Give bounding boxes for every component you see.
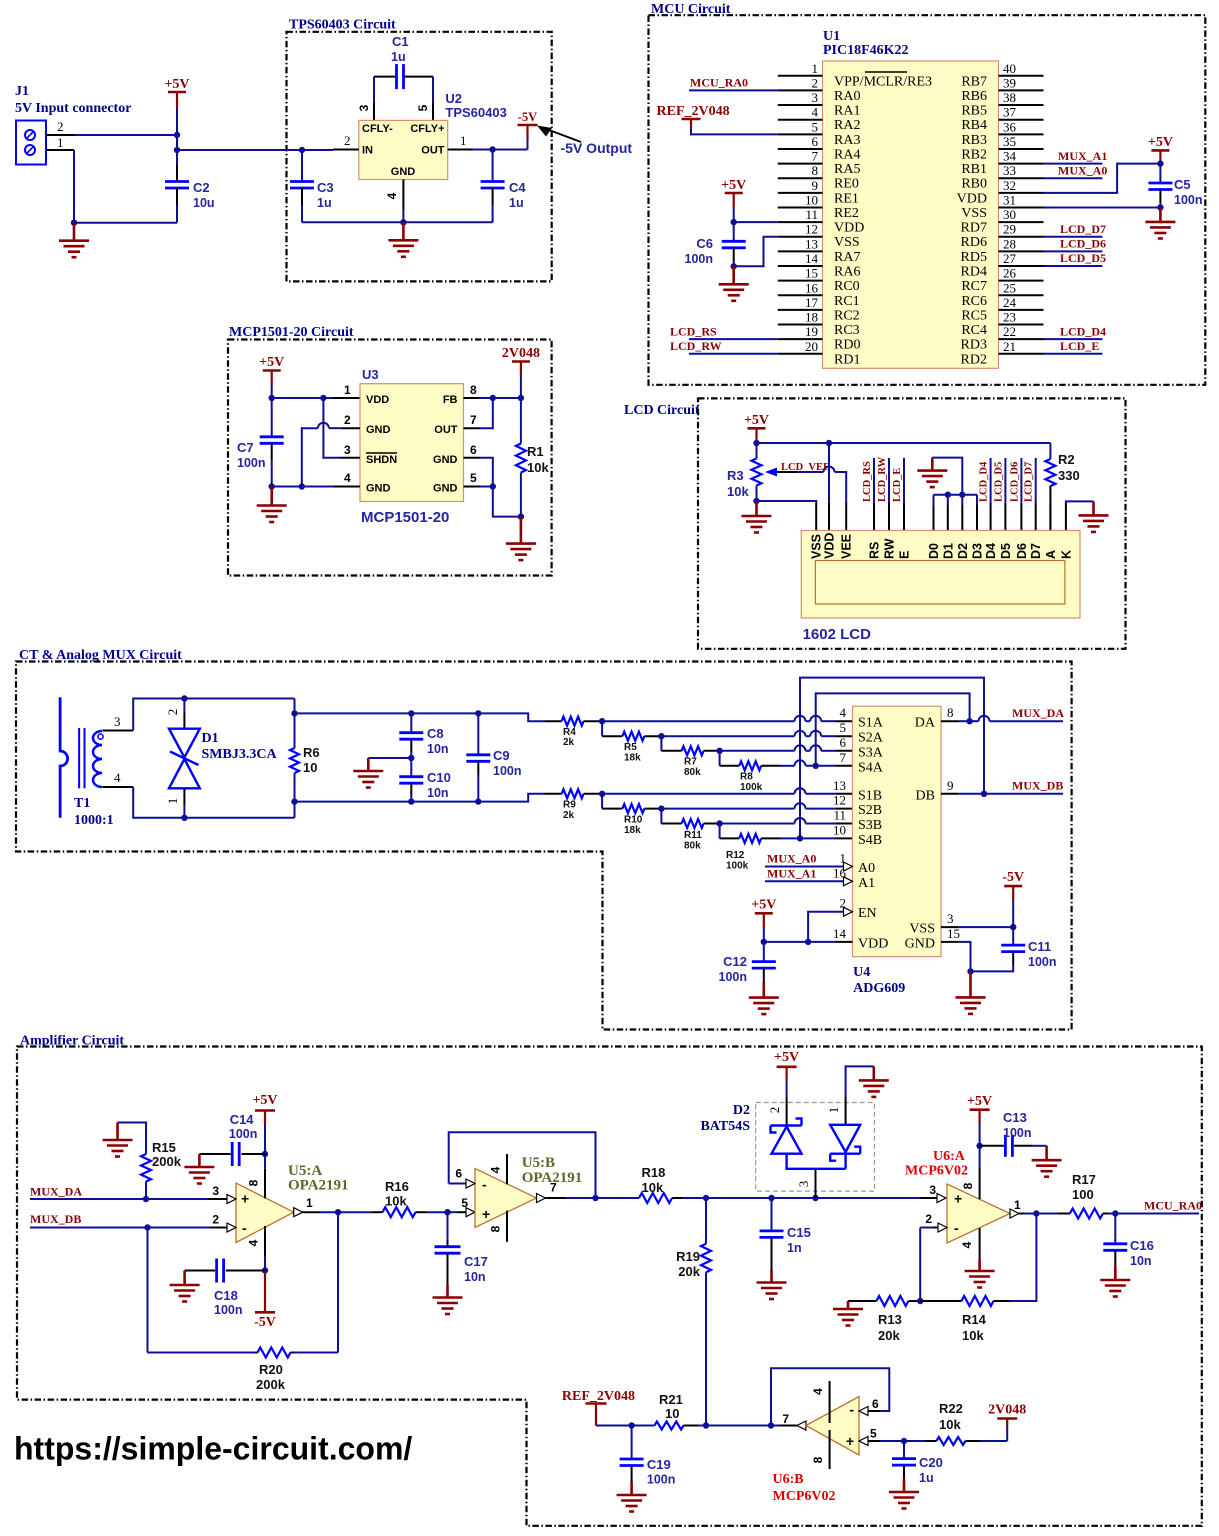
svg-text:RB4: RB4 xyxy=(961,118,987,133)
svg-text:RA0: RA0 xyxy=(834,89,860,104)
svg-text:S3B: S3B xyxy=(858,818,882,833)
op-amp U6:B mirrored xyxy=(806,1397,859,1456)
net LCD_RW vertical xyxy=(888,458,890,503)
capacitor C12 xyxy=(763,942,765,961)
svg-text:37: 37 xyxy=(1003,105,1017,120)
svg-text:RA5: RA5 xyxy=(834,162,860,177)
ground R13 xyxy=(833,1301,863,1326)
node VDD-SHDN junction xyxy=(320,395,326,401)
svg-text:S1B: S1B xyxy=(858,788,882,803)
svg-text:20k: 20k xyxy=(678,1264,700,1279)
svg-text:13: 13 xyxy=(805,236,818,251)
ground C16 xyxy=(1100,1266,1130,1297)
pin 4 T1 xyxy=(102,786,133,788)
resistor R10 xyxy=(601,794,603,809)
svg-text:10: 10 xyxy=(833,822,846,837)
svg-text:14: 14 xyxy=(805,251,819,266)
node FB-R1 junction xyxy=(518,395,524,401)
wire S3A xyxy=(720,750,795,752)
svg-text:4: 4 xyxy=(114,770,121,785)
svg-text:1u: 1u xyxy=(317,196,332,210)
svg-text:S2A: S2A xyxy=(858,731,884,746)
power -5V U5A xyxy=(264,1271,266,1313)
svg-text:PIC18F46K22: PIC18F46K22 xyxy=(823,43,909,58)
svg-text:RB0: RB0 xyxy=(961,177,987,192)
svg-text:+5V: +5V xyxy=(744,413,769,428)
svg-text:VSS: VSS xyxy=(834,235,860,250)
pin 7 U5B output xyxy=(537,1194,546,1203)
net LCD_D5 vertical xyxy=(1004,458,1006,503)
pin 5 U1 RA3 xyxy=(778,133,823,135)
pin 3 D2 xyxy=(815,1169,817,1198)
svg-text:TPS60403 Circuit: TPS60403 Circuit xyxy=(289,18,396,33)
svg-text:100: 100 xyxy=(1072,1187,1094,1202)
svg-text:6: 6 xyxy=(455,1167,462,1181)
svg-text:R1: R1 xyxy=(527,444,544,459)
svg-text:5: 5 xyxy=(416,104,430,111)
ground U6A pin4 xyxy=(965,1260,995,1288)
svg-text:100k: 100k xyxy=(740,782,763,793)
node C8 top xyxy=(408,710,414,716)
svg-text:D1: D1 xyxy=(202,731,219,746)
resistor R5 xyxy=(601,721,603,736)
svg-text:VEE: VEE xyxy=(840,534,854,559)
svg-text:+5V: +5V xyxy=(164,77,189,92)
wire U5B out to R18 xyxy=(596,1197,640,1199)
resistor R16 xyxy=(338,1211,372,1213)
diode D2 left xyxy=(771,1119,846,1169)
wire S2B xyxy=(661,808,794,810)
pin 2 wire IN xyxy=(333,149,359,151)
ground C7 xyxy=(257,487,287,523)
svg-text:GND: GND xyxy=(366,424,391,436)
border LCD circuit box xyxy=(698,398,1126,648)
svg-text:3: 3 xyxy=(344,443,351,457)
svg-text:1000:1: 1000:1 xyxy=(74,813,114,828)
pin 4 U5A V- xyxy=(264,1226,266,1256)
svg-text:35: 35 xyxy=(1003,134,1016,149)
wire pin5 to R22 xyxy=(904,1440,925,1442)
svg-text:31: 31 xyxy=(1003,192,1016,207)
svg-text:4: 4 xyxy=(812,105,819,120)
resistor R9 xyxy=(545,793,562,795)
svg-text:3: 3 xyxy=(212,1184,219,1198)
svg-text:R2: R2 xyxy=(1058,452,1075,467)
svg-text:CFLY+: CFLY+ xyxy=(410,123,444,135)
svg-text:8: 8 xyxy=(811,1456,825,1463)
svg-text:2: 2 xyxy=(925,1212,932,1226)
capacitor C19 xyxy=(631,1426,633,1459)
net MCU_RA0 out xyxy=(1115,1213,1199,1215)
svg-text:2: 2 xyxy=(57,119,64,134)
pin 16 U1 RC1 xyxy=(778,294,823,296)
svg-text:C5: C5 xyxy=(1174,177,1191,192)
pin 23 U1 RC4 xyxy=(999,324,1044,326)
IC U4 ADG609 xyxy=(853,706,942,956)
node GND5 junction xyxy=(490,483,496,489)
svg-text:LCD_D5: LCD_D5 xyxy=(993,462,1004,502)
svg-text:TPS60403: TPS60403 xyxy=(445,105,506,120)
svg-text:6: 6 xyxy=(840,735,847,750)
svg-text:8: 8 xyxy=(247,1179,261,1186)
svg-text:C18: C18 xyxy=(214,1288,238,1303)
svg-text:+5V: +5V xyxy=(252,1093,277,1108)
svg-text:RB3: RB3 xyxy=(961,133,987,148)
pin 2 U5A xyxy=(210,1227,227,1229)
svg-text:LCD_D6: LCD_D6 xyxy=(1009,462,1020,502)
svg-text:+5V: +5V xyxy=(751,898,776,913)
op-amp U5:B xyxy=(475,1169,537,1228)
svg-text:U6:B: U6:B xyxy=(773,1472,804,1487)
svg-text:2: 2 xyxy=(812,75,819,90)
node FB-OUT junction xyxy=(490,395,496,401)
pin 33 U1 RB0 xyxy=(999,177,1044,179)
power -5V output xyxy=(527,139,529,150)
pin 7 U1 RA5 xyxy=(778,163,823,165)
svg-text:RD7: RD7 xyxy=(961,221,987,236)
svg-text:34: 34 xyxy=(1003,149,1017,164)
svg-text:40: 40 xyxy=(1003,61,1016,76)
svg-text:VSS: VSS xyxy=(961,206,987,221)
capacitor C5 xyxy=(1159,164,1161,183)
svg-text:20: 20 xyxy=(805,339,818,354)
wire +5V to input bus xyxy=(176,108,178,181)
svg-text:11: 11 xyxy=(833,808,846,823)
pin 4 wire GND xyxy=(402,180,404,211)
capacitor C11 xyxy=(1012,927,1014,945)
svg-text:REF_2V048: REF_2V048 xyxy=(657,104,730,119)
svg-text:MUX_DA: MUX_DA xyxy=(30,1185,82,1199)
svg-text:10: 10 xyxy=(303,760,317,775)
svg-text:RD0: RD0 xyxy=(834,338,860,353)
pin 4 U5B bar xyxy=(506,1154,508,1184)
svg-text:1602 LCD: 1602 LCD xyxy=(803,626,872,643)
svg-text:2k: 2k xyxy=(563,737,575,748)
transformer T1 xyxy=(60,697,68,818)
svg-text:C2: C2 xyxy=(193,180,210,195)
svg-text:R7: R7 xyxy=(684,757,697,768)
svg-text:1: 1 xyxy=(812,61,819,76)
node C10 bottom xyxy=(408,798,414,804)
node S4B DB loop xyxy=(797,835,803,841)
wire SHDN to VDD xyxy=(323,398,340,458)
svg-text:LCD_D7: LCD_D7 xyxy=(1024,462,1035,502)
wire lower signal bus xyxy=(295,794,546,802)
node DB loop xyxy=(981,791,987,797)
pin 4 U1 RA2 xyxy=(778,119,823,121)
svg-text:1: 1 xyxy=(1014,1198,1021,1212)
pin 27 U1 RD4 xyxy=(999,265,1044,267)
pin 30 U1 RD7 xyxy=(999,221,1044,223)
diode D2 right xyxy=(830,1125,860,1169)
wire S4A xyxy=(780,765,795,767)
resistor R8 xyxy=(719,751,721,766)
svg-text:200k: 200k xyxy=(256,1377,286,1392)
svg-text:100n: 100n xyxy=(237,456,266,470)
svg-text:C15: C15 xyxy=(787,1225,811,1240)
svg-text:T1: T1 xyxy=(74,796,90,811)
net MUX_A1 to A1 xyxy=(765,880,844,882)
pin D2 wire xyxy=(959,492,965,498)
pin 2 U6A xyxy=(933,1227,938,1229)
node R17 C16 xyxy=(1112,1210,1118,1216)
wire mid to ground xyxy=(368,757,411,759)
svg-text:ADG609: ADG609 xyxy=(853,981,905,996)
svg-text:10k: 10k xyxy=(939,1417,961,1432)
svg-text:D7: D7 xyxy=(1029,543,1043,559)
node U6B feedback xyxy=(768,1422,774,1428)
svg-text:19: 19 xyxy=(805,324,818,339)
svg-text:2k: 2k xyxy=(563,810,575,821)
pin 1 U5A output xyxy=(294,1208,303,1217)
pin 3 U5A xyxy=(208,1198,227,1200)
svg-text:VDD: VDD xyxy=(823,533,837,559)
wire input bus to TPS IN xyxy=(177,149,302,151)
pin 35 U1 RB2 xyxy=(999,148,1044,150)
svg-text:9: 9 xyxy=(947,778,954,793)
net MUX_A0 on RB0 xyxy=(1044,177,1103,179)
capacitor C6 xyxy=(733,222,735,241)
svg-text:1: 1 xyxy=(57,135,64,150)
node R6 bottom tap xyxy=(291,798,297,804)
svg-text:100k: 100k xyxy=(726,861,749,872)
svg-text:RE1: RE1 xyxy=(834,191,859,206)
pin 7 U6B output xyxy=(771,1425,780,1427)
diode D1 SMBJ3.3CA xyxy=(183,699,185,713)
svg-text:200k: 200k xyxy=(152,1154,182,1169)
pin 9 U1 RE1 xyxy=(778,192,823,194)
svg-text:3: 3 xyxy=(812,90,819,105)
pin DA wire xyxy=(941,720,958,722)
svg-text:10n: 10n xyxy=(427,742,449,756)
svg-text:-: - xyxy=(954,1220,959,1236)
resistor R19 xyxy=(705,1198,707,1244)
svg-text:29: 29 xyxy=(1003,222,1016,237)
svg-text:C20: C20 xyxy=(919,1455,943,1470)
pin 1 U1 VPP/MCLR/RE3 xyxy=(778,75,823,77)
svg-text:U5:B: U5:B xyxy=(522,1155,555,1171)
border Amplifier circuit box xyxy=(17,1047,1202,1526)
node U6A out xyxy=(1033,1210,1039,1216)
resistor R13 xyxy=(848,1300,876,1302)
pin 38 U1 RB5 xyxy=(999,104,1044,106)
connector J1 xyxy=(16,121,46,165)
svg-text:C11: C11 xyxy=(1028,939,1051,954)
svg-text:-5V: -5V xyxy=(518,110,537,124)
svg-text:FB: FB xyxy=(443,394,458,406)
capacitor C4 xyxy=(492,150,494,182)
pin D0 wire xyxy=(933,495,935,505)
wire +5V to VDD EN xyxy=(764,928,836,942)
pin 22 U1 RD3 xyxy=(999,338,1044,340)
svg-text:U1: U1 xyxy=(823,29,840,44)
pin D1 wire xyxy=(945,492,951,498)
svg-text:R16: R16 xyxy=(385,1179,409,1194)
node R4 out xyxy=(599,718,605,724)
svg-text:2V048: 2V048 xyxy=(502,346,540,361)
wire VSS pin31 xyxy=(1044,206,1161,208)
svg-text:R13: R13 xyxy=(878,1312,902,1327)
pin 8 U6A xyxy=(979,1168,981,1199)
svg-text:RS: RS xyxy=(868,542,882,559)
svg-text:C10: C10 xyxy=(427,770,451,785)
svg-text:10n: 10n xyxy=(1130,1254,1152,1268)
net LCD_D6 vertical xyxy=(1020,458,1022,503)
node S4A DA loop xyxy=(813,763,819,769)
svg-text:A: A xyxy=(1044,550,1058,559)
net LCD_D6 on RD5 xyxy=(1044,250,1103,252)
resistor R2 xyxy=(1049,443,1051,459)
ground D2 xyxy=(859,1066,889,1097)
svg-text:RB6: RB6 xyxy=(961,89,987,104)
wire to U6B out xyxy=(706,1425,771,1427)
pin 2 U1 RA0 xyxy=(778,89,823,91)
pin VDD LCD xyxy=(828,503,830,531)
svg-text:MCP6V02: MCP6V02 xyxy=(773,1489,836,1504)
svg-text:U4: U4 xyxy=(853,965,870,980)
pin DB wire xyxy=(941,793,958,795)
svg-text:25: 25 xyxy=(1003,280,1016,295)
LCD module 1602 xyxy=(801,531,1080,619)
pin 14 U1 RA6 xyxy=(778,265,823,267)
svg-text:10k: 10k xyxy=(385,1194,407,1209)
pin K wire xyxy=(1065,503,1067,531)
svg-text:4: 4 xyxy=(344,471,351,485)
svg-text:MCP1501-20: MCP1501-20 xyxy=(361,509,449,526)
ground K xyxy=(1079,501,1109,532)
node R3 bottom xyxy=(753,498,759,504)
svg-text:8: 8 xyxy=(947,705,954,720)
wire GND pin5 xyxy=(464,486,481,488)
svg-text:RC5: RC5 xyxy=(961,308,987,323)
ground C5 xyxy=(1145,207,1175,238)
svg-text:S3A: S3A xyxy=(858,745,884,760)
svg-text:330: 330 xyxy=(1058,468,1080,483)
svg-text:VSS: VSS xyxy=(909,922,935,937)
svg-text:A1: A1 xyxy=(858,876,875,891)
capacitor C16 xyxy=(1114,1214,1116,1244)
svg-text:6: 6 xyxy=(470,443,477,457)
ground C6 xyxy=(719,266,749,301)
node R16 C17 pin5 xyxy=(444,1209,450,1215)
pin 3 T1 xyxy=(102,730,133,732)
svg-text:4: 4 xyxy=(247,1239,261,1246)
ground C14 xyxy=(184,1154,214,1184)
pin 12 U1 VSS xyxy=(778,236,823,238)
wire U5B feedback loop xyxy=(449,1132,596,1198)
svg-text:21: 21 xyxy=(1003,339,1016,354)
svg-text:R12: R12 xyxy=(726,850,745,861)
resistor R4 xyxy=(545,720,562,722)
svg-text:GND: GND xyxy=(905,936,935,951)
node C19 xyxy=(628,1422,634,1428)
pin 26 U1 RC7 xyxy=(999,280,1044,282)
svg-text:RC1: RC1 xyxy=(834,294,860,309)
node R1 bottom junction xyxy=(518,513,524,519)
node U5B out feedback xyxy=(592,1195,598,1201)
resistor R17 xyxy=(1036,1213,1058,1215)
ground C8 C10 xyxy=(353,758,383,788)
svg-text:R10: R10 xyxy=(624,815,643,826)
node C9 bottom xyxy=(475,798,481,804)
pin 4 U6B bar xyxy=(829,1381,831,1423)
svg-text:12: 12 xyxy=(805,222,818,237)
wire VDD pin32 to +5V xyxy=(1044,164,1161,193)
svg-text:3: 3 xyxy=(947,911,954,926)
svg-text:RB5: RB5 xyxy=(961,104,987,119)
svg-text:RB2: RB2 xyxy=(961,147,987,162)
pin 8 U6B bar xyxy=(829,1430,831,1469)
node R18 R19 xyxy=(703,1195,709,1201)
border CT MUX circuit box xyxy=(16,662,1072,1030)
node GND pin4 junction xyxy=(299,483,305,489)
svg-text:5: 5 xyxy=(870,1427,877,1441)
wire U6B feedback loop xyxy=(771,1368,889,1425)
svg-text:80k: 80k xyxy=(684,841,701,852)
svg-text:RC4: RC4 xyxy=(961,323,987,338)
svg-text:-5V Output: -5V Output xyxy=(561,140,633,156)
node VSS C5 xyxy=(1157,204,1163,210)
node VDD C6 xyxy=(731,219,737,225)
svg-text:R14: R14 xyxy=(962,1312,987,1327)
svg-text:8: 8 xyxy=(812,163,819,178)
svg-text:D1: D1 xyxy=(941,543,955,559)
net LCD_E on RD2 xyxy=(1044,353,1103,355)
capacitor C2 xyxy=(165,182,189,189)
svg-text:10k: 10k xyxy=(727,484,749,499)
svg-text:7: 7 xyxy=(782,1412,789,1426)
ground C19 xyxy=(617,1482,647,1512)
ground J1 xyxy=(59,223,89,258)
node pin4 C18 xyxy=(262,1267,268,1273)
svg-text:U3: U3 xyxy=(362,367,379,382)
svg-text:RD5: RD5 xyxy=(961,250,987,265)
capacitor C13 xyxy=(1005,1135,1012,1157)
wire pin2 to R13 R14 xyxy=(919,1228,921,1302)
capacitor C17 xyxy=(447,1212,449,1240)
svg-text:3: 3 xyxy=(357,104,371,111)
pin A wire xyxy=(1049,505,1051,531)
pin 24 U1 RC5 xyxy=(999,309,1044,311)
svg-text:OUT: OUT xyxy=(421,145,445,157)
arrow -5V output pointer xyxy=(545,129,581,143)
pin 11 U1 VDD xyxy=(778,221,823,223)
pin 6 U1 RA4 xyxy=(778,148,823,150)
svg-text:15: 15 xyxy=(805,266,818,281)
svg-text:RA1: RA1 xyxy=(834,104,860,119)
svg-text:3: 3 xyxy=(929,1183,936,1197)
svg-text:https://simple-circuit.com/: https://simple-circuit.com/ xyxy=(14,1431,412,1467)
pin VEE LCD xyxy=(845,503,847,531)
svg-text:C16: C16 xyxy=(1130,1238,1154,1253)
pin 28 U1 RD5 xyxy=(999,250,1044,252)
svg-text:10k: 10k xyxy=(527,460,549,475)
pin VSS LCD xyxy=(815,503,817,531)
node C6 gnd junction xyxy=(731,263,737,269)
node C7 gnd junction xyxy=(269,483,275,489)
wire S3B xyxy=(720,823,795,825)
node R11 out xyxy=(716,820,722,826)
svg-text:MUX_A0: MUX_A0 xyxy=(1058,164,1107,178)
diode D2 BAT54S xyxy=(756,1103,875,1192)
net LCD_D5 on RD4 xyxy=(1044,265,1103,267)
svg-text:MUX_A0: MUX_A0 xyxy=(767,852,816,866)
wire C1 right to pin5 xyxy=(432,77,434,103)
net MUX_A0 to A0 xyxy=(765,866,844,868)
svg-text:1u: 1u xyxy=(919,1471,934,1485)
pin 29 U1 RD6 xyxy=(999,236,1044,238)
svg-text:D2: D2 xyxy=(956,543,970,559)
